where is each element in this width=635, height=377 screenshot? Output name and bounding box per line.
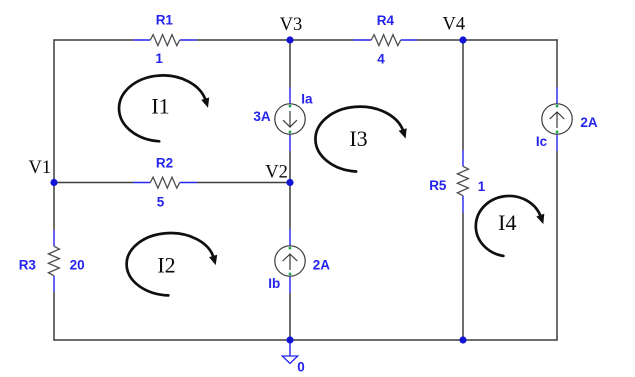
wire top rail between R4 and V4 — [417, 39, 463, 41]
current source Ia — [275, 104, 305, 134]
wire left rail V1 to R3 — [53, 183, 55, 231]
svg-text:V4: V4 — [442, 15, 465, 35]
current source Ia bottom pin — [289, 134, 291, 151]
svg-text:I3: I3 — [349, 126, 367, 151]
node V3 junction dot — [286, 36, 293, 43]
wire R5 to bottom rail — [462, 213, 464, 340]
wire Ib to bottom rail — [289, 293, 291, 340]
svg-text:5: 5 — [157, 195, 165, 210]
mesh current arrow I1 — [119, 75, 206, 141]
current source Ic top pin — [556, 87, 558, 104]
svg-text:Ib: Ib — [268, 276, 280, 291]
wire bottom rail — [54, 339, 558, 341]
junction dot bottom of R5 branch — [459, 336, 466, 343]
current source Ib bottom pin — [289, 276, 291, 293]
resistor R3 bottom pin — [53, 276, 55, 292]
svg-text:Ia: Ia — [301, 92, 313, 107]
svg-text:3A: 3A — [253, 109, 271, 124]
svg-text:4: 4 — [377, 52, 385, 67]
resistor R2 left pin — [133, 182, 150, 184]
svg-text:0: 0 — [297, 359, 305, 372]
resistor R4 right pin — [401, 39, 417, 41]
current source Ia top pin — [289, 87, 291, 104]
resistor R3 top pin — [53, 230, 55, 246]
svg-text:V2: V2 — [265, 163, 288, 183]
mesh current arrow I4 — [476, 196, 541, 256]
current source Ic — [542, 104, 572, 134]
resistor R5 body — [457, 166, 468, 195]
svg-text:2A: 2A — [313, 258, 331, 273]
svg-text:I2: I2 — [157, 253, 175, 278]
wire left rail upper — [53, 39, 55, 182]
junction dot at ground node — [286, 336, 293, 343]
resistor R2 right pin — [180, 182, 197, 184]
svg-text:20: 20 — [70, 257, 85, 272]
wire right rail below Ic — [556, 151, 558, 340]
resistor R1 right pin — [180, 39, 197, 41]
resistor R3 body — [48, 246, 59, 275]
wire top rail between V3 and R4 — [290, 39, 353, 41]
svg-text:1: 1 — [478, 179, 486, 194]
current source Ib top pin — [289, 229, 291, 246]
node V1 junction dot — [50, 179, 57, 186]
svg-text:I1: I1 — [151, 94, 169, 119]
resistor R5 top pin — [462, 150, 464, 166]
svg-text:R4: R4 — [377, 13, 395, 28]
resistor R1 left pin — [133, 39, 150, 41]
svg-text:R3: R3 — [19, 257, 37, 272]
node V2 junction dot — [286, 179, 293, 186]
wire middle row V1 to R2 — [54, 182, 133, 184]
wire left rail below R3 — [53, 292, 55, 341]
wire V3 to Ia — [289, 40, 291, 87]
svg-text:R1: R1 — [156, 12, 174, 27]
svg-text:Ic: Ic — [536, 134, 548, 149]
svg-text:I4: I4 — [498, 210, 516, 235]
mesh current arrow I2 — [127, 233, 214, 295]
svg-text:R5: R5 — [429, 178, 447, 193]
node V4 junction dot — [459, 36, 466, 43]
resistor R4 left pin — [353, 39, 371, 41]
svg-text:2A: 2A — [580, 115, 598, 130]
current source Ib — [275, 246, 305, 276]
resistor R1 body — [150, 35, 179, 46]
mesh current arrow I3 — [315, 107, 403, 172]
wire top rail left segment — [54, 39, 133, 41]
wire top rail between R1 and V3 — [197, 39, 290, 41]
current source Ic bottom pin — [556, 134, 558, 151]
resistor R2 body — [150, 177, 179, 188]
ground — [289, 340, 291, 356]
wire V2 to Ib — [289, 183, 291, 230]
svg-text:1: 1 — [155, 51, 163, 66]
svg-text:V1: V1 — [28, 158, 51, 178]
wire middle row R2 to V2 — [197, 182, 290, 184]
wire V4 to R5 — [462, 40, 464, 150]
wire Ia to V2 — [289, 151, 291, 183]
wire right rail above Ic — [556, 39, 558, 87]
wire top rail between V4 and top-right corner — [463, 39, 558, 41]
svg-text:V3: V3 — [280, 15, 303, 35]
resistor R5 bottom pin — [462, 196, 464, 213]
resistor R4 body — [371, 35, 400, 46]
svg-text:R2: R2 — [156, 156, 173, 171]
